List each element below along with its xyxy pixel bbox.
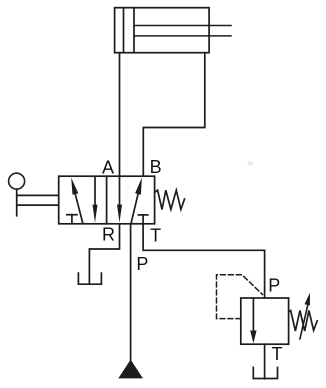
- svg-text:R: R: [102, 225, 115, 245]
- svg-text:T: T: [272, 344, 283, 364]
- svg-text:T: T: [150, 226, 161, 246]
- svg-text:A: A: [102, 157, 114, 177]
- svg-text:P: P: [268, 275, 280, 295]
- svg-text:B: B: [150, 157, 162, 177]
- svg-text:P: P: [136, 254, 148, 274]
